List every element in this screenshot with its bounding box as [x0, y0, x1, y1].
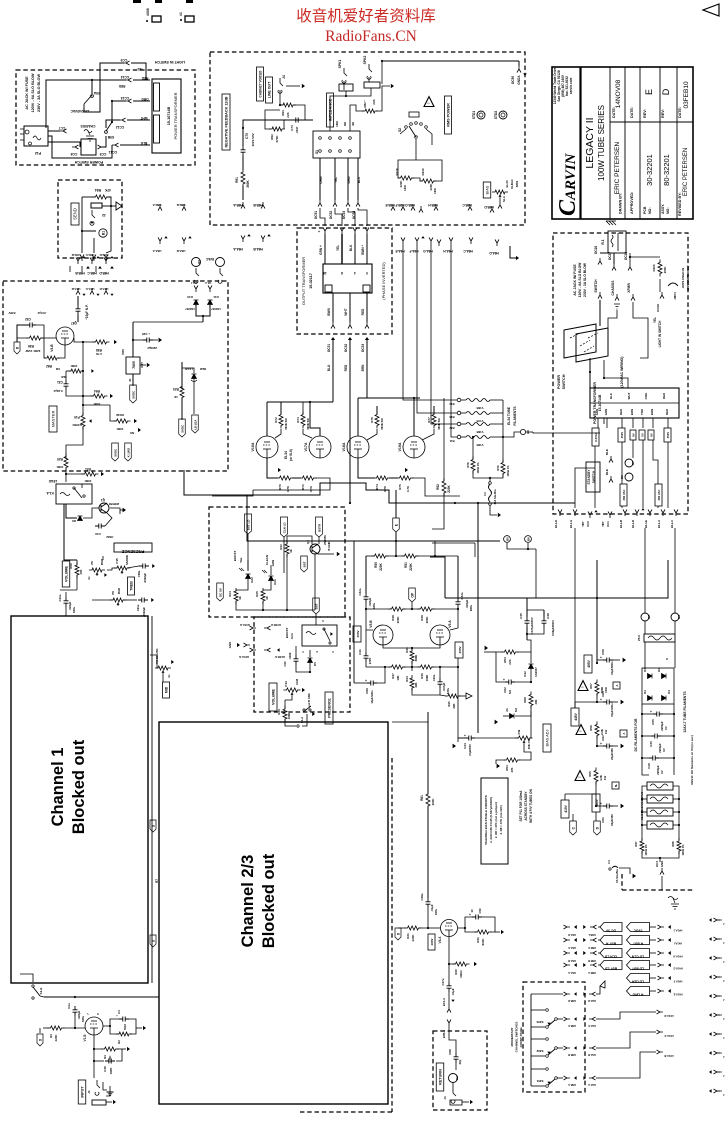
- pi bottom join: [412, 688, 440, 695]
- svg-text:63µF/500v: 63µF/500v: [610, 661, 614, 675]
- svg-text:C55: C55: [651, 719, 655, 725]
- tag pair DC 5V: [600, 923, 622, 932]
- svg-text:C70: C70: [245, 133, 249, 139]
- svg-text:V19A: V19A: [398, 442, 402, 451]
- speaker jack SPK1: [342, 68, 347, 83]
- wire jack top rail: [46, 80, 90, 128]
- svg-text:JMP1: JMP1: [673, 292, 677, 300]
- v4a cathode net: [449, 937, 455, 964]
- svg-text:R36: R36: [28, 344, 34, 348]
- wire S2 net: [398, 139, 416, 178]
- svg-text:BRN: BRN: [361, 364, 365, 372]
- connector H6A.E bus: [401, 238, 405, 245]
- svg-text:V17B: V17B: [477, 419, 484, 423]
- svg-text:H13B.G: H13B.G: [275, 655, 285, 659]
- svg-text:R40: R40: [454, 969, 458, 975]
- svg-text:H#1A.G: H#1A.G: [673, 967, 682, 971]
- svg-text:27PF: 27PF: [368, 657, 372, 664]
- svg-text:OC52: OC52: [329, 211, 333, 219]
- svg-text:RED: RED: [344, 364, 348, 371]
- svg-text:CHASSIS: CHASSIS: [80, 124, 96, 128]
- svg-text:.0022µF: .0022µF: [142, 607, 146, 617]
- svg-text:LINE OUT: LINE OUT: [268, 81, 272, 98]
- relay K2A dashed box: [254, 617, 350, 712]
- svg-text:630v: 630v: [81, 1016, 85, 1022]
- capacitor C2a input: [73, 1006, 78, 1016]
- svg-text:H3A.B: H3A.B: [588, 1053, 596, 1057]
- svg-text:R62: R62: [46, 364, 52, 368]
- svg-text:H7B.C: H7B.C: [85, 253, 95, 257]
- connector CC14 RED: [125, 78, 132, 82]
- svg-text:D5: D5: [313, 662, 317, 666]
- svg-text:*10µF N.P.: *10µF N.P.: [85, 304, 89, 319]
- tag 5VDC r23: [179, 419, 186, 437]
- svg-text:R3: R3: [49, 1034, 53, 1038]
- el34 grid arrows: [278, 468, 281, 472]
- svg-text:Channel 2/3: Channel 2/3: [239, 855, 257, 948]
- momentary switches dashed box: [523, 982, 585, 1092]
- svg-text:+: +: [600, 801, 602, 805]
- svg-text:CC13: CC13: [121, 96, 130, 100]
- svg-text:680v: 680v: [372, 602, 376, 609]
- svg-text:C31: C31: [57, 380, 63, 384]
- resistor R52 220K: [442, 478, 446, 496]
- svg-text:V18A: V18A: [342, 442, 346, 451]
- svg-text:100Ω 1%: 100Ω 1%: [681, 844, 685, 856]
- svg-text:J4: J4: [282, 75, 286, 79]
- OT bottom wire RED: [366, 293, 368, 322]
- svg-text:C62: C62: [601, 735, 605, 741]
- svg-text:5A600K: 5A600K: [125, 555, 129, 565]
- svg-text:S302: S302: [536, 1049, 543, 1053]
- svg-text:47K: 47K: [79, 569, 83, 574]
- warning triangle psu2: [576, 725, 586, 735]
- svg-text:BOOST: BOOST: [285, 628, 289, 639]
- svg-text:BLK: BLK: [605, 469, 609, 475]
- wire CC13 to PT: [133, 100, 150, 102]
- svg-text:5016: 5016: [123, 1024, 127, 1030]
- capacitor C52 047uF: [26, 323, 36, 328]
- svg-text:R78: R78: [466, 462, 470, 468]
- svg-text:120V/UNITS ONLY: 120V/UNITS ONLY: [686, 265, 690, 290]
- svg-text:Blocked out: Blocked out: [260, 853, 278, 948]
- v4a grid net: [420, 908, 428, 928]
- svg-text:1W: 1W: [603, 776, 607, 781]
- svg-text:RMS POWER: RMS POWER: [447, 103, 451, 127]
- svg-text:H3A.A: H3A.A: [588, 1083, 596, 1087]
- power tube V17A: [309, 436, 331, 458]
- svg-text:220K: 220K: [399, 180, 403, 188]
- pot P14 A1M: [284, 688, 301, 692]
- svg-text:S4.A: S4.A: [300, 717, 304, 723]
- svg-text:22µF/450: 22µF/450: [610, 814, 614, 826]
- svg-text:H1-F: H1-F: [205, 281, 212, 285]
- svg-text:C61: C61: [601, 817, 605, 823]
- svg-text:12AX.7 TUBE FILAMENTS: 12AX.7 TUBE FILAMENTS: [683, 691, 687, 733]
- svg-text:H3B.D: H3B.D: [568, 999, 576, 1003]
- svg-text:K LWD: K LWD: [126, 448, 130, 457]
- svg-text:100K: 100K: [70, 364, 78, 368]
- svg-text:350V: 350V: [620, 432, 624, 439]
- svg-text:.01µF: .01µF: [451, 988, 455, 995]
- svg-text:BLK: BLK: [605, 449, 609, 455]
- svg-text:R.1: R.1: [601, 239, 605, 244]
- svg-text:H7A.C: H7A.C: [85, 287, 95, 291]
- svg-text:OC33: OC33: [361, 344, 365, 352]
- tag D psu: [594, 821, 601, 835]
- resistor R42 1K: [285, 541, 289, 557]
- svg-text:R39: R39: [277, 709, 281, 715]
- connector H1-F: [208, 286, 212, 293]
- voltage box 8V b: [648, 430, 654, 440]
- svg-text:NO:: NO:: [666, 207, 670, 214]
- wire powerswitch net: [599, 300, 601, 326]
- svg-text:R73: R73: [296, 417, 300, 423]
- svg-text:MASTER: MASTER: [51, 411, 56, 428]
- voltage box 350V a: [618, 428, 625, 442]
- resistor R40 91K: [453, 962, 470, 966]
- svg-text:5VDC: 5VDC: [180, 424, 184, 433]
- title block frame: [552, 67, 693, 219]
- filament rail: [502, 400, 504, 437]
- svg-text:GND: GND: [660, 861, 664, 868]
- diode D23 LEAD: [192, 374, 197, 379]
- svg-text:R49: R49: [420, 615, 424, 621]
- svg-text:GRN +: GRN +: [319, 245, 323, 255]
- resistor R78 100 1%: [471, 457, 475, 474]
- PT bottom pins: [597, 418, 599, 428]
- resistor R39 100K: [283, 706, 287, 722]
- pi cathode join: [383, 645, 440, 648]
- rail 478 drop: [477, 503, 479, 733]
- svg-text:AC JACK W/ FUSE: AC JACK W/ FUSE: [573, 264, 577, 296]
- fuse F2: [489, 482, 492, 485]
- resistor R55 4.3K 1W: [594, 768, 598, 785]
- screen resistor R77 360K 5W: [432, 412, 436, 429]
- voltage box 495V: [584, 655, 592, 673]
- wire S5B to CC13: [112, 101, 126, 122]
- svg-text:LIGHT IN SWITCH: LIGHT IN SWITCH: [658, 320, 662, 347]
- 8VAC circle B10: [216, 258, 225, 267]
- svg-text:2200µF: 2200µF: [147, 346, 157, 350]
- svg-text:1N4007: 1N4007: [534, 667, 538, 677]
- svg-text:H6B.C: H6B.C: [87, 271, 97, 275]
- svg-text:AC JACK W/ FUSE: AC JACK W/ FUSE: [25, 76, 29, 110]
- svg-text:OC3: OC3: [655, 861, 659, 867]
- svg-text:14NOV08: 14NOV08: [615, 79, 622, 108]
- svg-text:495V: 495V: [587, 659, 591, 667]
- svg-text:WHT: WHT: [627, 392, 631, 399]
- svg-text:+ C20: + C20: [142, 332, 150, 336]
- filament winding V16B: [466, 399, 490, 402]
- svg-text:B11: B11: [449, 439, 454, 443]
- svg-text:+: +: [600, 697, 602, 701]
- diode D11: [208, 300, 213, 305]
- svg-text:BLK: BLK: [140, 141, 147, 145]
- capacitor C56: [603, 658, 613, 663]
- svg-text:R55: R55: [588, 771, 592, 777]
- capacitor C61: [603, 804, 613, 809]
- svg-text:R2: R2: [117, 1040, 121, 1044]
- svg-text:E: E: [644, 89, 654, 95]
- capacitor C40a: [438, 678, 443, 688]
- standby switch label: [586, 462, 600, 492]
- svg-text:Z1: Z1: [505, 708, 509, 712]
- svg-text:8VAC: 8VAC: [205, 257, 214, 261]
- capacitor C59 10: [472, 915, 482, 920]
- transistor Q1: [99, 503, 109, 513]
- svg-text:CC12: CC12: [116, 125, 125, 129]
- svg-text:10K: 10K: [396, 675, 400, 680]
- wire bias tag: [499, 198, 501, 202]
- svg-text:47K: 47K: [104, 188, 111, 192]
- svg-text:2.2K: 2.2K: [600, 729, 604, 735]
- svg-text:445V: 445V: [574, 712, 578, 720]
- connector OC53: [346, 200, 350, 207]
- diode D10: [194, 300, 199, 305]
- bias d12 net: [517, 640, 531, 652]
- capacitor C58a: [139, 564, 149, 569]
- svg-text:415V: 415V: [564, 804, 568, 812]
- speaker jack SPK2: [367, 64, 372, 79]
- resistor R93 22K: [280, 103, 296, 107]
- svg-text:Q87: Q87: [71, 321, 77, 325]
- svg-text:BLK: BLK: [609, 392, 613, 399]
- capacitor C21a: [138, 598, 148, 603]
- svg-text:K2A: K2A: [290, 632, 294, 639]
- svg-text:B100K: B100K: [72, 423, 82, 427]
- connector OC29: [660, 292, 664, 299]
- capacitor C62 NU: [505, 680, 515, 685]
- svg-text:YEL: YEL: [239, 557, 243, 563]
- svg-text:C44: C44: [463, 743, 467, 749]
- input label box: [78, 1080, 86, 1104]
- svg-text:D11: D11: [213, 295, 219, 299]
- svg-text:D12: D12: [523, 671, 527, 677]
- capacitor C48: [542, 617, 547, 627]
- boost dashed box: [209, 507, 345, 617]
- svg-text:380 VAC: 380 VAC: [622, 490, 626, 501]
- resistor R81 100K: [426, 791, 430, 809]
- svg-text:RETURN: RETURN: [439, 1069, 443, 1085]
- momentary left rail: [530, 994, 532, 1086]
- power input dashed box: [16, 70, 195, 165]
- svg-text:BST: BST: [314, 603, 318, 609]
- svg-text:C30: C30: [649, 741, 653, 747]
- svg-text:NEGATIVE FEEDBACK 12dB: NEGATIVE FEEDBACK 12dB: [225, 96, 229, 147]
- svg-text:R57: R57: [589, 683, 593, 689]
- tag DC 5V boost: [217, 583, 224, 601]
- svg-text:16W: 16W: [433, 188, 437, 194]
- ch1 right edge wire: [151, 616, 153, 983]
- blu line to el34: [332, 360, 334, 394]
- wire k1a net: [66, 504, 77, 518]
- svg-text:360K 5W: 360K 5W: [306, 418, 310, 430]
- tag pair BST R: [600, 936, 622, 945]
- svg-text:220K: 220K: [54, 1034, 58, 1042]
- svg-text:SWITCH: SWITCH: [562, 374, 566, 389]
- tag CLN LD: [281, 517, 288, 537]
- el34 plate wire left pair: [332, 394, 334, 402]
- capacitor C46 10PF: [105, 1059, 115, 1064]
- svg-text:1K: 1K: [238, 596, 242, 600]
- svg-text:H6B.H: H6B.H: [428, 203, 438, 207]
- svg-text:H1-LD: H1-LD: [631, 520, 635, 528]
- tag LD BST right col: [627, 961, 650, 970]
- tag D left: [14, 342, 20, 354]
- svg-text:LD CLN: LD CLN: [631, 955, 644, 959]
- resistor R53 47K: [504, 758, 521, 762]
- svg-text:2N5550: 2N5550: [323, 535, 327, 545]
- tag 5VDC vr5: [130, 385, 137, 403]
- master label box: [49, 406, 57, 432]
- svg-text:MOMENTARY: MOMENTARY: [510, 1028, 514, 1047]
- svg-text:C59: C59: [478, 908, 482, 914]
- send bottom wires: [81, 231, 83, 253]
- svg-text:TBY: TBY: [581, 521, 585, 527]
- resistor R23 1K: [180, 384, 184, 401]
- svg-text:BST R: BST R: [605, 942, 616, 946]
- svg-text:6V: 6V: [664, 726, 668, 730]
- svg-text:C63: C63: [601, 691, 605, 697]
- svg-text:R74: R74: [375, 484, 379, 490]
- rail 445 drop: [430, 557, 445, 598]
- tag H3A.H: [250, 626, 257, 630]
- svg-text:(120V/AC WIRING): (120V/AC WIRING): [620, 357, 624, 388]
- svg-text:16W: 16W: [403, 185, 407, 191]
- OT top wire BLK: [348, 208, 355, 226]
- svg-text:CHASSIS: CHASSIS: [611, 280, 615, 296]
- svg-text:ORG: ORG: [141, 97, 149, 101]
- svg-text:4.7K: 4.7K: [286, 485, 290, 492]
- k2a net: [295, 646, 297, 655]
- svg-text:5VDC: 5VDC: [633, 929, 643, 933]
- svg-text:680K: 680K: [414, 655, 418, 662]
- capacitor C63: [603, 700, 613, 705]
- svg-text:R77: R77: [427, 417, 431, 423]
- connector H6B.A left pair: [158, 204, 162, 211]
- svg-text:R44: R44: [405, 676, 409, 682]
- wire CC14 to PT: [133, 79, 150, 81]
- svg-text:0.68µF/630V: 0.68µF/630V: [551, 620, 555, 636]
- svg-text:H6B.G: H6B.G: [405, 203, 415, 207]
- svg-text:5VDC: 5VDC: [131, 390, 135, 399]
- svg-text:RadioFans.CN: RadioFans.CN: [325, 28, 417, 45]
- svg-text:LIGHT IN SWITCH: LIGHT IN SWITCH: [154, 60, 185, 64]
- box label 5L: [612, 782, 619, 789]
- svg-text:H6A.B: H6A.B: [568, 959, 576, 963]
- svg-text:JMP1 USED IN: JMP1 USED IN: [681, 268, 685, 288]
- return wires: [449, 1026, 456, 1053]
- wire S1 down YEL: [334, 158, 336, 200]
- svg-text:R82 *: R82 *: [363, 99, 367, 107]
- svg-text:B3: B3: [677, 615, 681, 619]
- bias adj label box: [543, 724, 551, 752]
- svg-text:R51: R51: [404, 562, 408, 568]
- svg-text:C41: C41: [358, 649, 362, 655]
- connector OC28: [628, 264, 632, 271]
- svg-text:!: !: [580, 686, 586, 687]
- tag D input: [37, 1034, 43, 1046]
- voltage box 415V: [561, 800, 569, 818]
- svg-text:100K: 100K: [663, 266, 667, 274]
- wire CC9 to PT: [131, 63, 146, 80]
- svg-text:Channel 1: Channel 1: [49, 748, 67, 827]
- resistor R43 22K: [445, 694, 461, 698]
- svg-text:C48: C48: [546, 613, 550, 619]
- capacitor C55 2200uF 6V: [653, 712, 663, 717]
- svg-text:120V/ - 6A SLO BLOW: 120V/ - 6A SLO BLOW: [31, 73, 35, 112]
- connector H6B.B bus: [261, 202, 265, 209]
- svg-text:300V: 300V: [356, 631, 360, 638]
- bottom tag TBY OC2: [588, 512, 592, 519]
- preamp dashed box: [3, 281, 228, 471]
- svg-text:YEL: YEL: [137, 67, 143, 71]
- svg-text:8Ω: 8Ω: [343, 121, 347, 126]
- resistor R54 22K: [502, 650, 519, 654]
- wire d10 d11 join: [196, 305, 210, 316]
- svg-text:P15: P15: [115, 558, 119, 564]
- connector H6B.H bus: [434, 204, 438, 211]
- OT bottom arrows: [331, 337, 335, 340]
- capacitor C70: [241, 146, 246, 156]
- OT top wire GRN: [320, 208, 325, 226]
- svg-text:R45: R45: [420, 673, 424, 679]
- screen resistor R73 360K 5W: [301, 412, 305, 429]
- svg-text:22K: 22K: [452, 703, 456, 708]
- tag D ch1 b: [150, 935, 156, 947]
- svg-text:120V/ - 6A SLO BLOW: 120V/ - 6A SLO BLOW: [578, 262, 582, 298]
- svg-text:H6A.A: H6A.A: [568, 971, 576, 975]
- svg-text:S5A: S5A: [93, 91, 100, 95]
- connector CC13 ORG: [125, 99, 132, 103]
- voltage box 8V a: [630, 430, 636, 440]
- svg-text:TREB: TREB: [130, 581, 134, 591]
- power switch box: [81, 139, 96, 155]
- svg-text:GND: GND: [228, 642, 232, 649]
- boost wires: [247, 560, 249, 570]
- led STD2: [499, 111, 507, 119]
- tag D v4a: [395, 928, 401, 940]
- svg-text:0.22µF: 0.22µF: [53, 389, 62, 393]
- svg-text:R23: R23: [173, 387, 179, 391]
- resistor R49 100K: [418, 607, 435, 611]
- voltage box 385V: [592, 794, 600, 812]
- PT secondary wires: [594, 446, 596, 508]
- tag BST LD: [245, 514, 252, 534]
- capacitor C73: [292, 118, 302, 123]
- svg-text:REV.D: DC filaments on V4 (no: REV.D: DC filaments on V4 (no sec): [690, 735, 694, 784]
- 8VAC circle B9: [192, 258, 201, 267]
- wire jack to CC7: [48, 130, 60, 132]
- filament r bottom join: [473, 471, 503, 478]
- svg-text:H7B.D: H7B.D: [100, 253, 109, 257]
- svg-text:carvin.com: carvin.com: [569, 78, 573, 95]
- svg-text:R71: R71: [301, 484, 305, 490]
- svg-text:PCB: PCB: [643, 206, 647, 214]
- svg-text:D21: D21: [273, 579, 277, 585]
- svg-text:+: +: [116, 1014, 118, 1018]
- tube V4A: [441, 920, 458, 937]
- wire v4a feed: [427, 712, 429, 794]
- svg-text:H7B.A: H7B.A: [442, 1030, 446, 1038]
- resistor R36 220K: [27, 336, 44, 340]
- svg-text:2200µF: 2200µF: [660, 721, 664, 731]
- connector OC26: [598, 258, 602, 265]
- svg-text:R58: R58: [69, 563, 73, 569]
- connector H6B.C bus: [468, 204, 472, 211]
- svg-text:B5: B5: [506, 537, 510, 541]
